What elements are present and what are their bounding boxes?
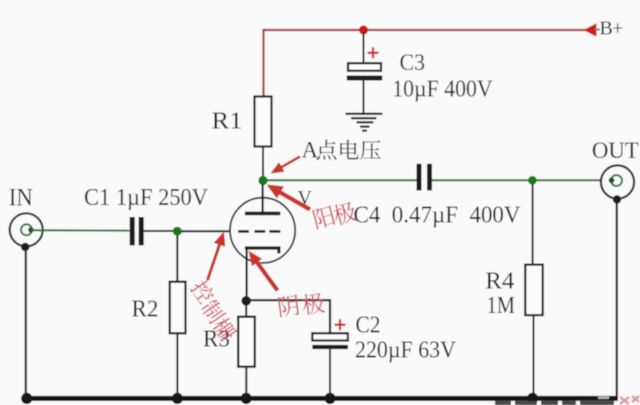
capacitor C2 top plate	[312, 333, 348, 340]
green wire IN to C1	[31, 229, 130, 231]
resistor R1	[255, 97, 272, 147]
resistor R4	[525, 265, 542, 316]
wire: red vertical to R1	[262, 29, 264, 97]
wire: OUT to ground bus	[616, 198, 618, 398]
capacitor C4 right plate	[427, 164, 432, 191]
node: wire tip dot at OUT	[609, 178, 615, 184]
svg-text:C3: C3	[400, 50, 426, 76]
ground symbol	[346, 114, 383, 131]
svg-text:+: +	[612, 18, 623, 40]
arrow to grid from control-grid label	[208, 243, 221, 280]
terminal IN outer circle	[10, 213, 43, 246]
green wire node A to C4	[263, 179, 417, 181]
resistor R3	[238, 317, 255, 367]
tube anode plate	[245, 212, 280, 216]
svg-text:220µF 63V: 220µF 63V	[355, 338, 457, 364]
label A point voltage CJK	[316, 140, 380, 160]
svg-text:R2: R2	[132, 297, 159, 323]
svg-text:OUT: OUT	[592, 138, 639, 164]
node: wire tip dot at IN	[28, 227, 34, 233]
wire: R1 to node A	[262, 146, 264, 179]
node: OUT bottom dot	[613, 195, 621, 203]
green wire C4 to OUT	[432, 179, 611, 181]
wire: R3 to bus	[245, 367, 247, 399]
wire: junction to C3	[363, 32, 365, 64]
svg-text:R4: R4	[485, 268, 514, 294]
resistor R2	[170, 282, 186, 334]
terminal IN inner circle	[21, 224, 32, 235]
arrow to node A from anode label	[279, 192, 310, 210]
label cathode CJK red	[278, 292, 326, 318]
svg-text:C2: C2	[356, 313, 381, 339]
tube anode lead	[262, 184, 264, 213]
capacitor C4 left plate	[417, 164, 422, 191]
svg-text:R1: R1	[212, 108, 243, 134]
wire: IN to bus	[25, 247, 27, 398]
svg-text:B: B	[600, 18, 613, 40]
label anode CJK red	[312, 200, 358, 230]
wire: node C down to R2	[176, 235, 178, 283]
capacitor C3 bottom plate	[347, 76, 382, 81]
capacitor C3 plus sign	[368, 47, 379, 58]
wire: node D to C2 corner	[246, 300, 330, 334]
node: IN bottom dot	[21, 243, 29, 251]
tube cathode lead	[246, 249, 248, 300]
watermark fragments bottom right	[495, 400, 614, 405]
svg-text:IN: IN	[9, 185, 33, 212]
B+ arrowhead	[584, 23, 597, 36]
capacitor C1 left plate	[130, 217, 135, 245]
label control grid CJK red	[189, 277, 240, 344]
svg-text:A: A	[302, 138, 319, 163]
ground bus	[22, 396, 618, 401]
wire: node C to tube grid	[181, 230, 231, 232]
svg-text:10µF 400V: 10µF 400V	[392, 76, 493, 102]
capacitor C2 plus sign	[335, 319, 346, 330]
tube V envelope circle	[230, 198, 295, 263]
wire stub at B+	[595, 29, 600, 31]
arrow to cathode from cathode label	[256, 261, 278, 291]
node C green dot	[173, 227, 182, 236]
wire: node D to R3	[245, 305, 247, 318]
watermark pink mark	[620, 396, 639, 404]
node: red junction dot	[359, 26, 368, 35]
wire: C3 to ground	[363, 80, 365, 114]
terminal OUT outer circle	[601, 165, 634, 198]
wire: R4 to bus	[533, 315, 535, 398]
capacitor C3 top plate	[348, 63, 381, 71]
tube grid dashes	[238, 230, 280, 233]
wire: R2 to bus	[176, 333, 178, 398]
capacitor C1 right plate	[139, 217, 144, 245]
wire: C2 to bus	[329, 349, 331, 399]
wire: node B to R4	[532, 184, 534, 266]
arrow to node A from label	[280, 157, 300, 169]
node B green dot	[528, 176, 537, 185]
node A green dot	[258, 176, 267, 185]
node D cathode junction dot	[241, 296, 251, 306]
svg-text:1M: 1M	[487, 293, 516, 319]
bus junction dots	[21, 393, 538, 404]
svg-text:C4 0.47µF 400V: C4 0.47µF 400V	[354, 203, 522, 229]
tube cathode	[245, 248, 279, 254]
svg-text:C1 1µF 250V: C1 1µF 250V	[84, 185, 209, 211]
wire: C1 to node C	[144, 230, 177, 232]
wire: red B+ rail horizontal	[263, 29, 592, 31]
capacitor C2 bottom plate	[312, 345, 348, 349]
terminal OUT inner circle	[611, 175, 622, 186]
